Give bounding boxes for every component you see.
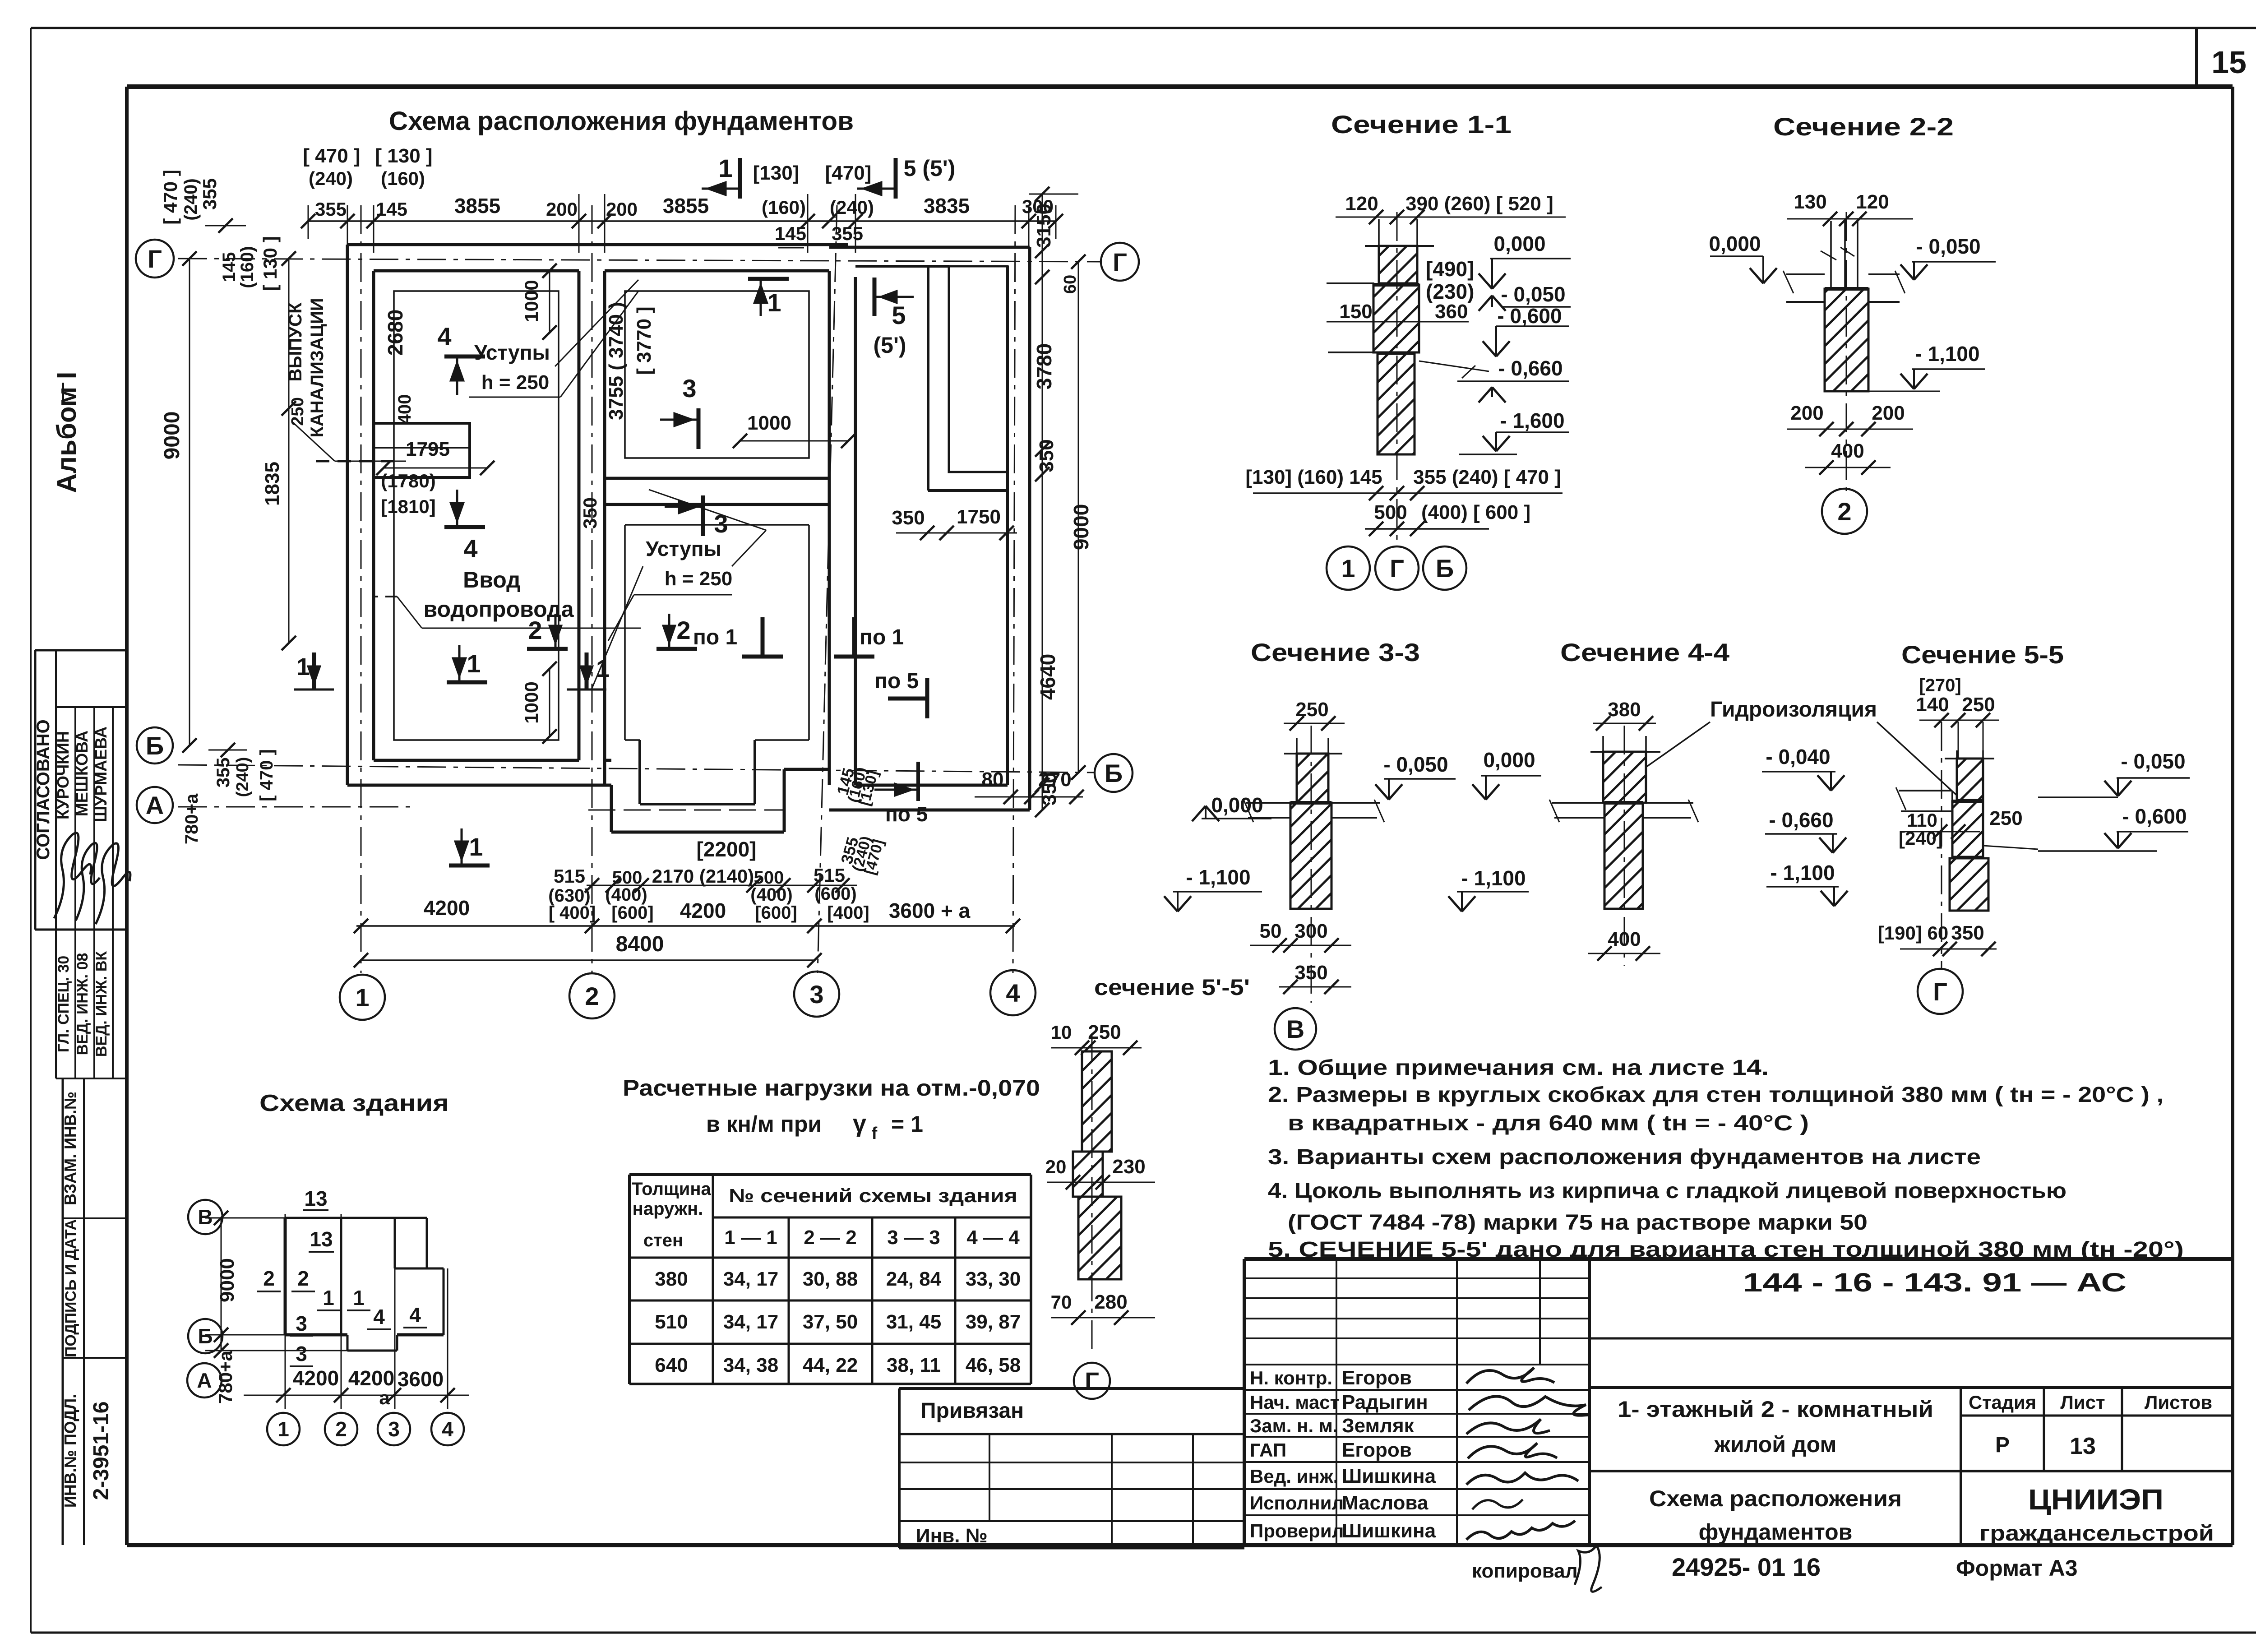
схема здания circles (188, 1200, 222, 1234)
svg-text:20: 20 (1045, 1156, 1067, 1177)
axis Г (178, 259, 1101, 262)
svg-text:350: 350 (579, 497, 601, 529)
svg-text:- 0,600: - 0,600 (2122, 805, 2187, 828)
svg-text:3780: 3780 (1032, 343, 1056, 389)
svg-text:Шишкина: Шишкина (1342, 1520, 1436, 1542)
svg-text:400: 400 (1831, 440, 1864, 462)
svg-text:50: 50 (1260, 920, 1282, 942)
svg-text:120: 120 (1345, 193, 1378, 215)
svg-text:515: 515 (554, 865, 585, 887)
cut flag 4 upper (444, 355, 485, 359)
svg-text:[ 470 ]: [ 470 ] (257, 749, 277, 801)
axis 2 (592, 205, 593, 973)
circle 4 (990, 970, 1036, 1015)
section 4-4 axis (1624, 726, 1625, 966)
svg-text:ВЗАМ. ИНВ.№: ВЗАМ. ИНВ.№ (61, 1092, 79, 1205)
cut flag 1 room2 (748, 277, 789, 281)
svg-text:по 5: по 5 (885, 802, 928, 826)
svg-text:(240): (240) (233, 757, 252, 797)
svg-text:ВЕД. ИНЖ. 08: ВЕД. ИНЖ. 08 (74, 953, 91, 1055)
svg-text:Вед. инж.: Вед. инж. (1250, 1466, 1338, 1487)
svg-text:4200: 4200 (424, 896, 470, 920)
svg-text:24925- 01 16: 24925- 01 16 (1672, 1553, 1821, 1581)
svg-text:ГАП: ГАП (1250, 1439, 1286, 1461)
svg-text:2. Размеры в круглых скобка: 2. Размеры в круглых скобках для стен то… (1268, 1083, 2164, 1107)
section 5-5 flange (1899, 790, 1952, 791)
привязка table (899, 1462, 1244, 1463)
svg-text:250: 250 (288, 397, 307, 426)
svg-text:(240): (240) (830, 197, 874, 218)
svg-text:80: 80 (982, 768, 1004, 791)
svg-text:(240): (240) (309, 168, 353, 189)
svg-text:4: 4 (437, 322, 451, 351)
svg-text:h = 250: h = 250 (665, 568, 732, 590)
svg-text:Г: Г (148, 245, 162, 273)
svg-text:8400: 8400 (616, 932, 664, 956)
section 4-4 flange (1552, 802, 1604, 804)
plan west wall (346, 245, 349, 785)
svg-text:по 5: по 5 (874, 669, 919, 693)
circle А left (137, 787, 173, 823)
svg-text:- 0,050: - 0,050 (2121, 750, 2185, 773)
svg-text:250: 250 (1295, 699, 1328, 721)
svg-text:Шишкина: Шишкина (1342, 1465, 1436, 1487)
circle 2 (569, 973, 615, 1018)
bottom chain dim line 2 (356, 925, 1015, 927)
svg-text:2: 2 (335, 1417, 347, 1441)
svg-text:f: f (872, 1124, 878, 1143)
section 1-1 axis (1396, 212, 1398, 546)
section 5-5 axis (1941, 722, 1942, 968)
svg-text:Схема расположения фундамент: Схема расположения фундаментов (389, 106, 854, 136)
left dims 1835 / 250 (288, 259, 290, 643)
svg-text:144 - 16 - 143. 91 — АС: 144 - 16 - 143. 91 — АС (1743, 1268, 2127, 1297)
svg-text:230: 230 (1112, 1156, 1145, 1178)
svg-text:34, 38: 34, 38 (723, 1354, 778, 1376)
svg-text:(160): (160) (237, 246, 257, 288)
svg-text:350: 350 (1294, 962, 1327, 984)
svg-text:Альбом I: Альбом I (51, 372, 82, 493)
svg-text:[600]: [600] (611, 903, 653, 923)
svg-text:ГЛ. СПЕЦ. 30: ГЛ. СПЕЦ. 30 (55, 956, 72, 1052)
plan porch inner steps (638, 740, 641, 804)
svg-text:1835: 1835 (261, 462, 283, 506)
svg-text:1: 1 (296, 653, 310, 680)
svg-text:Б: Б (198, 1324, 213, 1348)
svg-text:355: 355 (199, 178, 220, 210)
svg-text:А: А (146, 791, 164, 819)
cut flag 4 lower (444, 525, 485, 529)
svg-text:[ 470 ]: [ 470 ] (160, 170, 181, 224)
circle Г right (1101, 243, 1139, 281)
svg-text:Проверил: Проверил (1250, 1520, 1344, 1541)
svg-text:(160): (160) (762, 197, 806, 218)
svg-text:(240): (240) (181, 178, 201, 220)
svg-text:- 1,100: - 1,100 (1186, 865, 1250, 889)
svg-text:3835: 3835 (924, 194, 970, 217)
svg-text:2: 2 (263, 1267, 275, 1290)
svg-text:1: 1 (323, 1286, 334, 1310)
svg-text:Исполнил: Исполнил (1250, 1492, 1344, 1513)
plan right south wall (855, 784, 1008, 787)
svg-text:4640: 4640 (1036, 654, 1059, 700)
svg-text:(400) [ 600 ]: (400) [ 600 ] (1421, 501, 1530, 523)
axis А (178, 806, 411, 808)
svg-text:[2200]: [2200] (697, 838, 757, 861)
svg-text:[470]: [470] (825, 162, 872, 184)
svg-text:140: 140 (1916, 694, 1949, 716)
svg-text:(600): (600) (814, 884, 856, 904)
svg-text:145: 145 (376, 199, 407, 220)
svg-text:355: 355 (832, 223, 863, 244)
svg-text:13: 13 (310, 1227, 333, 1251)
svg-text:А: А (197, 1369, 212, 1392)
svg-text:Гидроизоляция: Гидроизоляция (1710, 698, 1877, 722)
svg-text:400: 400 (1608, 928, 1641, 950)
svg-text:ПОДПИСЬ И ДАТА: ПОДПИСЬ И ДАТА (62, 1219, 79, 1357)
svg-text:в квадратных - для 640 мм: в квадратных - для 640 мм ( tн = - 40°С … (1288, 1111, 1809, 1135)
axis 3 (818, 205, 837, 973)
svg-text:200: 200 (1790, 402, 1823, 424)
cut flag 1 below room1 (447, 680, 487, 685)
section 2-2 wall above (1830, 221, 1832, 289)
svg-text:780+a: 780+a (215, 1350, 236, 1404)
sidebar table A: СОГЛАСОВАНО + names (35, 649, 127, 652)
svg-text:Листов: Листов (2145, 1392, 2212, 1413)
svg-text:Привязан: Привязан (920, 1399, 1024, 1423)
svg-text:46, 58: 46, 58 (966, 1354, 1021, 1376)
svg-text:2-3951-16: 2-3951-16 (89, 1402, 113, 1500)
svg-text:[ 470 ]: [ 470 ] (303, 145, 360, 167)
svg-text:34, 17: 34, 17 (723, 1311, 778, 1333)
svg-text:- 0,040: - 0,040 (1766, 745, 1830, 768)
svg-text:200: 200 (606, 199, 638, 220)
title block left rows (1244, 1277, 1590, 1279)
svg-text:13: 13 (2070, 1433, 2096, 1459)
sidebar signatures (54, 833, 91, 918)
sidebar table B (55, 930, 57, 1078)
svg-text:200: 200 (546, 199, 578, 220)
section 5-5 pier (1957, 759, 1983, 800)
svg-text:250: 250 (1989, 807, 2022, 829)
svg-text:- 1,100: - 1,100 (1915, 342, 1979, 366)
bottom chain dim line 1 (587, 885, 857, 886)
svg-text:Уступы: Уступы (474, 341, 550, 364)
svg-text:Ввод: Ввод (463, 567, 521, 592)
схема здания dim lines (244, 1395, 469, 1396)
привязан box (899, 1387, 1244, 1390)
svg-text:44, 22: 44, 22 (803, 1354, 858, 1376)
svg-text:300: 300 (1294, 920, 1327, 942)
plan duct void (949, 266, 1008, 472)
cut flag 1 bottom outside (449, 864, 490, 868)
svg-text:3 — 3: 3 — 3 (887, 1226, 940, 1249)
svg-text:водопровода: водопровода (423, 597, 574, 622)
svg-text:3: 3 (714, 509, 728, 538)
plan porch outer (610, 785, 613, 832)
plan east wall (1028, 247, 1031, 810)
svg-text:10: 10 (1051, 1022, 1072, 1043)
svg-text:γ: γ (853, 1110, 866, 1137)
section 5p pier (1082, 1051, 1112, 1152)
svg-text:Зам. н. м.: Зам. н. м. (1250, 1415, 1338, 1436)
svg-text:3600: 3600 (398, 1367, 444, 1391)
svg-text:КУРОЧКИН: КУРОЧКИН (54, 731, 72, 819)
top dim line (308, 220, 1056, 222)
svg-text:24, 84: 24, 84 (886, 1268, 942, 1290)
svg-text:30, 88: 30, 88 (803, 1268, 858, 1290)
svg-text:[130]: [130] (753, 162, 800, 184)
svg-text:3855: 3855 (663, 194, 709, 217)
svg-text:4: 4 (442, 1417, 453, 1441)
plan north wall (347, 243, 848, 246)
svg-text:Сечение 4-4: Сечение 4-4 (1560, 638, 1729, 666)
svg-text:- 0,660: - 0,660 (1769, 808, 1833, 832)
svg-text:Б: Б (146, 731, 164, 760)
svg-text:350: 350 (1038, 772, 1060, 805)
svg-text:[600]: [600] (755, 903, 797, 923)
svg-text:1. Общие примечания см. на: 1. Общие примечания см. на листе 14. (1268, 1056, 1769, 1080)
svg-text:350: 350 (1951, 922, 1984, 944)
svg-text:Радыгин: Радыгин (1342, 1391, 1428, 1413)
svg-text:2: 2 (676, 616, 690, 644)
svg-text:1- этажный 2 - комнатный: 1- этажный 2 - комнатный (1618, 1397, 1933, 1422)
svg-text:130: 130 (1794, 191, 1826, 213)
svg-text:Сечение 1-1: Сечение 1-1 (1331, 110, 1512, 139)
svg-text:наружн.: наружн. (633, 1199, 703, 1219)
svg-text:жилой дом: жилой дом (1714, 1432, 1836, 1457)
svg-text:3600 + a: 3600 + a (889, 899, 971, 922)
title block right cells (1590, 1337, 2233, 1340)
cut flag 3 lower (701, 495, 705, 536)
svg-text:120: 120 (1856, 191, 1889, 213)
svg-text:сечение 5'-5': сечение 5'-5' (1094, 975, 1250, 1000)
inner frame (127, 84, 2233, 89)
svg-text:1 — 1: 1 — 1 (724, 1226, 777, 1249)
svg-text:5: 5 (892, 301, 906, 329)
svg-text:1000: 1000 (521, 280, 542, 322)
ledge ввод-а (374, 423, 470, 477)
svg-text:1: 1 (718, 154, 732, 182)
svg-text:Схема здания: Схема здания (259, 1090, 449, 1116)
svg-text:38, 11: 38, 11 (887, 1354, 941, 1376)
svg-text:400: 400 (395, 394, 415, 425)
svg-text:280: 280 (1094, 1291, 1127, 1313)
signature scribbles (1466, 1368, 1554, 1384)
cut flags 1 bottom left (312, 652, 316, 689)
svg-text:9000: 9000 (160, 412, 184, 460)
svg-text:1: 1 (1341, 554, 1355, 583)
svg-text:380: 380 (655, 1268, 688, 1290)
svg-text:3: 3 (296, 1342, 307, 1365)
svg-text:390 (260) [ 520 ]: 390 (260) [ 520 ] (1405, 193, 1553, 215)
svg-text:4200: 4200 (348, 1366, 394, 1390)
svg-text:- 1,100: - 1,100 (1461, 866, 1526, 890)
svg-text:Г: Г (1933, 977, 1947, 1006)
svg-text:= 1: = 1 (891, 1111, 923, 1137)
svg-text:Схема расположения: Схема расположения (1649, 1486, 1902, 1511)
plan wall axis2 (578, 271, 581, 760)
circle Б left (137, 727, 173, 764)
svg-text:[ 130 ]: [ 130 ] (375, 145, 432, 167)
section 5p axis (1091, 1033, 1093, 1356)
svg-text:ИНВ.№ ПОДЛ.: ИНВ.№ ПОДЛ. (61, 1394, 79, 1508)
svg-text:копировал: копировал (1472, 1560, 1578, 1582)
svg-text:2: 2 (297, 1267, 309, 1290)
svg-text:4: 4 (463, 534, 477, 563)
outer border bottom (31, 1632, 2256, 1634)
svg-text:№ сечений схемы здания: № сечений схемы здания (729, 1185, 1017, 1206)
svg-text:355 (240) [ 470 ]: 355 (240) [ 470 ] (1413, 466, 1561, 488)
svg-text:Стадия: Стадия (1969, 1392, 2036, 1413)
svg-text:0,000: 0,000 (1483, 748, 1535, 772)
svg-text:780+a: 780+a (182, 793, 202, 844)
svg-text:Б: Б (1436, 554, 1454, 583)
svg-text:1: 1 (355, 983, 369, 1012)
svg-text:[ 400]: [ 400] (549, 903, 596, 923)
svg-text:250: 250 (1088, 1021, 1121, 1043)
svg-text:Г: Г (1085, 1367, 1099, 1395)
svg-text:4: 4 (1006, 979, 1020, 1007)
svg-text:510: 510 (655, 1311, 688, 1333)
section 2-2 pier (1825, 289, 1868, 391)
svg-text:4 — 4: 4 — 4 (966, 1226, 1020, 1249)
svg-text:Егоров: Егоров (1342, 1439, 1412, 1461)
section 3-3 pier (1297, 754, 1328, 803)
svg-text:стен: стен (643, 1231, 683, 1250)
svg-text:- 0,660: - 0,660 (1498, 356, 1563, 380)
svg-text:- 0,050: - 0,050 (1501, 282, 1565, 306)
section 3-3 circle В (1275, 1008, 1316, 1050)
svg-text:в кн/м при: в кн/м при (706, 1111, 822, 1137)
svg-text:360: 360 (1435, 301, 1468, 323)
svg-text:39, 87: 39, 87 (966, 1311, 1021, 1333)
svg-text:200: 200 (1872, 402, 1905, 424)
sheet number box 15 (2195, 28, 2198, 87)
svg-text:9000: 9000 (216, 1258, 238, 1302)
svg-text:[ 130 ]: [ 130 ] (259, 236, 281, 291)
svg-text:37, 50: 37, 50 (803, 1311, 858, 1333)
circle 1 (340, 975, 385, 1020)
svg-text:1: 1 (353, 1286, 365, 1310)
svg-text:[1810]: [1810] (381, 496, 435, 517)
svg-text:145: 145 (219, 252, 239, 282)
svg-text:[240]: [240] (1899, 828, 1943, 849)
section 3-3 flange (1246, 802, 1290, 804)
svg-text:1: 1 (277, 1417, 289, 1441)
svg-text:Формат А3: Формат А3 (1956, 1555, 2078, 1581)
svg-text:h = 250: h = 250 (481, 371, 549, 393)
section 2-2 axis (1846, 212, 1847, 491)
svg-text:(5'): (5') (874, 333, 906, 358)
svg-text:граждансельстрой: граждансельстрой (1979, 1522, 2214, 1546)
svg-text:2170 (2140): 2170 (2140) (652, 865, 754, 887)
svg-text:1: 1 (596, 655, 610, 682)
svg-text:3150: 3150 (1033, 204, 1055, 248)
svg-text:Маслова: Маслова (1342, 1492, 1428, 1514)
svg-text:- 1,600: - 1,600 (1500, 409, 1564, 432)
svg-text:- 1,100: - 1,100 (1770, 861, 1835, 884)
svg-text:2: 2 (1837, 497, 1851, 526)
svg-text:фундаментов: фундаментов (1699, 1519, 1853, 1545)
svg-text:Уступы: Уступы (646, 537, 721, 560)
svg-text:- 0,600: - 0,600 (1497, 304, 1562, 328)
svg-text:3: 3 (809, 980, 823, 1009)
svg-text:по 1: по 1 (693, 625, 737, 649)
svg-text:[400]: [400] (827, 903, 869, 923)
svg-text:0,000: 0,000 (1211, 793, 1263, 817)
section 5p circle Г (1074, 1363, 1110, 1399)
svg-text:(ГОСТ 7484 -78) марки 75 на: (ГОСТ 7484 -78) марки 75 на растворе мар… (1288, 1211, 1868, 1235)
section 3-3 axis (1311, 726, 1312, 1003)
svg-text:355: 355 (315, 199, 347, 220)
svg-text:a: a (379, 1387, 390, 1408)
svg-text:3. Варианты схем расположени: 3. Варианты схем расположения фундаменто… (1268, 1145, 1981, 1169)
svg-text:Сечение 3-3: Сечение 3-3 (1251, 638, 1420, 666)
cut flag 5 right room (873, 278, 877, 316)
svg-text:- 0,050: - 0,050 (1383, 753, 1448, 776)
plan middle cross wall (605, 477, 829, 480)
svg-text:33, 30: 33, 30 (966, 1268, 1021, 1290)
svg-text:ЦНИИЭП: ЦНИИЭП (2028, 1483, 2164, 1516)
svg-text:5 (5'): 5 (5') (904, 156, 956, 181)
svg-text:150: 150 (1339, 301, 1372, 323)
svg-text:(1780): (1780) (381, 470, 435, 491)
section 5-5 circle Г (1918, 969, 1963, 1014)
svg-text:Р: Р (1995, 1433, 2010, 1457)
svg-text:В: В (198, 1205, 213, 1229)
svg-text:В: В (1286, 1015, 1304, 1043)
svg-text:3: 3 (682, 374, 696, 403)
svg-text:15: 15 (2211, 45, 2247, 80)
svg-text:(160): (160) (381, 168, 425, 189)
load table grid (629, 1173, 1031, 1176)
svg-text:1750: 1750 (957, 506, 1001, 528)
cut flag 1 top (738, 158, 742, 199)
svg-text:60: 60 (1061, 275, 1080, 294)
svg-text:Нач. маст: Нач. маст (1250, 1392, 1339, 1413)
svg-text:2680: 2680 (384, 310, 407, 356)
svg-text:4200: 4200 (680, 899, 726, 922)
svg-text:3855: 3855 (454, 194, 500, 217)
svg-text:1000: 1000 (747, 412, 791, 434)
svg-text:Инв. №: Инв. № (916, 1525, 988, 1547)
svg-text:[130] (160) 145: [130] (160) 145 (1245, 466, 1382, 488)
svg-text:(400): (400) (750, 885, 792, 905)
svg-text:145: 145 (775, 223, 806, 244)
plan south wall left (347, 784, 611, 787)
svg-text:Расчетные нагрузки на отм.-: Расчетные нагрузки на отм.-0,070 (623, 1075, 1040, 1101)
outer border top (31, 27, 2256, 29)
svg-text:250: 250 (1962, 694, 1995, 716)
svg-text:1000: 1000 (521, 681, 542, 723)
svg-text:Б: Б (1105, 759, 1123, 787)
svg-text:Г: Г (1390, 554, 1404, 583)
svg-text:[ 3770 ]: [ 3770 ] (633, 306, 655, 375)
svg-text:2: 2 (585, 982, 599, 1010)
plan right top wall (829, 246, 1030, 249)
plan wall axis3 (828, 271, 831, 785)
plan inner footing outlines (394, 291, 559, 740)
svg-text:4200: 4200 (293, 1366, 339, 1390)
circle Б right (1095, 754, 1133, 792)
svg-text:380: 380 (1608, 699, 1641, 721)
svg-text:3: 3 (388, 1417, 400, 1441)
схема здания grid (205, 1217, 285, 1219)
section 2-2 flange (1786, 273, 1825, 275)
svg-text:ВЫПУСК: ВЫПУСК (286, 302, 305, 382)
outer border left (30, 28, 32, 1633)
